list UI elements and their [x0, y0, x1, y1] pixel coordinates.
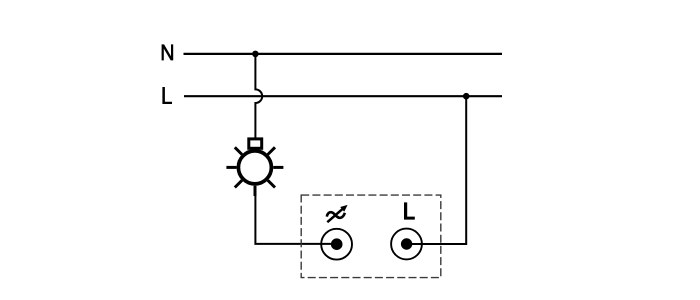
lamp bulb circle [238, 151, 271, 184]
node junction on L [463, 93, 470, 100]
wire from N to lamp with hop over L [255, 54, 262, 138]
dimmer icon tilde [327, 212, 345, 218]
wire L line [184, 95, 502, 97]
lamp rays [226, 147, 283, 196]
label L terminal [404, 202, 415, 219]
dimmer icon arrow [327, 209, 343, 223]
wire N line [184, 53, 503, 55]
wire lamp to left terminal [255, 195, 336, 244]
terminal 1 circle [321, 229, 352, 260]
label L [162, 87, 172, 104]
node junction on N [252, 51, 259, 58]
terminal 2 circle [391, 229, 422, 260]
label N [162, 44, 174, 60]
terminal 2 dot [401, 238, 412, 249]
lamp holder square [249, 139, 262, 148]
terminal 1 dot [331, 238, 343, 250]
dashed enclosure box [301, 195, 441, 278]
wire terminal 2 to L line [407, 96, 467, 244]
